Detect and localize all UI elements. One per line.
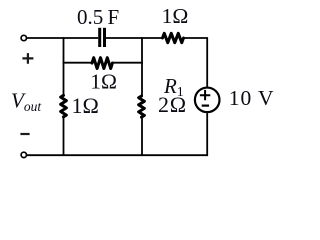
- resistor 1ohm top-right zigzag: [163, 33, 184, 42]
- svg-text:1Ω: 1Ω: [72, 93, 99, 118]
- terminal bottom-left: [21, 152, 26, 157]
- right vertical lower + bottom wire: [27, 113, 207, 155]
- svg-text:1Ω: 1Ω: [162, 4, 189, 28]
- middle wire left segment: [63, 62, 93, 64]
- terminal top-left: [21, 35, 26, 40]
- wire top right segment + right vertical upper: [184, 38, 208, 87]
- wire top left segment: [27, 37, 98, 39]
- resistor 1ohm middle zigzag: [92, 58, 112, 69]
- resistor 1ohm left vertical zigzag: [61, 95, 67, 117]
- svg-text:2Ω: 2Ω: [158, 92, 187, 117]
- middle wire right segment: [112, 62, 143, 64]
- plus polarity mark: [22, 53, 33, 64]
- svg-text:1Ω: 1Ω: [90, 69, 117, 93]
- vertical B upper segment (x=142): [141, 37, 143, 96]
- minus sign inside source: [202, 104, 209, 106]
- wire top middle segment: [106, 37, 163, 39]
- vertical A upper segment (x=63.5): [63, 37, 65, 95]
- minus polarity mark: [20, 133, 29, 135]
- capacitor C1 plates: [98, 28, 101, 47]
- vertical A lower segment: [63, 118, 65, 156]
- plus sign inside source: [200, 90, 210, 100]
- svg-text:Vout: Vout: [11, 89, 42, 115]
- voltage source V1 circle: [195, 88, 220, 113]
- svg-text:0.5 F: 0.5 F: [77, 5, 119, 29]
- resistor R1 2ohm vertical zigzag: [139, 96, 145, 117]
- vertical B lower segment: [141, 118, 143, 156]
- svg-text:10 V: 10 V: [229, 86, 275, 110]
